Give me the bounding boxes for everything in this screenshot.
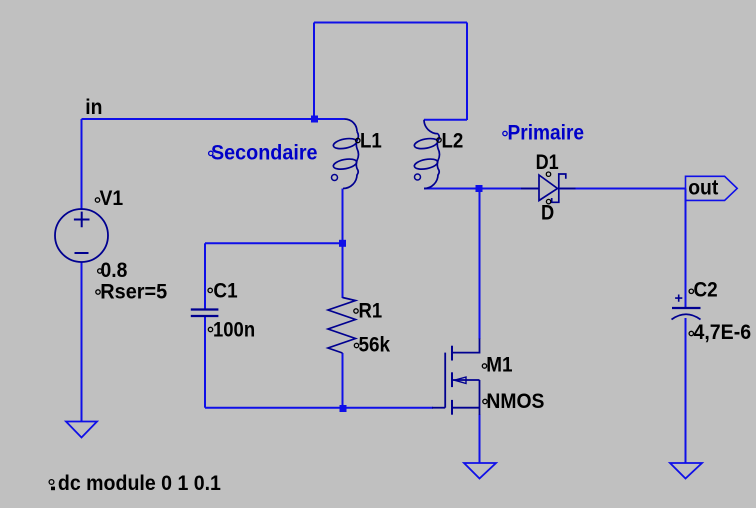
wire: V1 bottom to ground — [81, 262, 83, 422]
nmos M1 channel bottom segment — [451, 400, 453, 415]
inductor L2 rail bumps — [437, 134, 439, 175]
svg-text:C1: C1 — [213, 279, 237, 302]
svg-text:D1: D1 — [536, 151, 559, 175]
svg-text:C2: C2 — [694, 278, 718, 301]
anchor of 56k — [354, 343, 358, 347]
wire: C1 bottom vertical — [204, 317, 206, 408]
wire: L2 top horizontal — [424, 119, 467, 121]
nmos M1 source horizontal — [453, 407, 480, 409]
junction at bottom net / R1 — [340, 405, 347, 412]
junction at in/L1 top — [311, 116, 318, 123]
svg-text:D: D — [541, 201, 554, 225]
wire: R1 bottom lead — [342, 353, 344, 408]
wire: V1 top lead — [81, 119, 83, 210]
wire: C2 bottom to ground — [685, 318, 687, 463]
svg-text:56k: 56k — [359, 333, 391, 356]
diode D1 schottky cathode bar — [552, 174, 566, 202]
inductor L1 loop 2 — [333, 157, 358, 171]
nmos M1 arrow — [455, 377, 467, 384]
wire: C1 top vertical — [204, 243, 206, 309]
diode D1 cathode lead — [559, 188, 576, 190]
anchor of Secondaire — [209, 151, 213, 155]
anchor of R1 — [354, 309, 358, 313]
wire: top rectangle left vertical — [313, 23, 315, 120]
svg-text:NMOS: NMOS — [486, 389, 544, 413]
svg-text:0.8: 0.8 — [101, 258, 128, 282]
inductor L1 phase dot — [332, 175, 338, 181]
wire: node in horizontal — [82, 118, 345, 120]
wire: out flag down to C2 — [685, 189, 687, 309]
inductor L2 lead-in arc — [424, 120, 438, 134]
wire: L1 bottom vertical to R1 — [342, 189, 344, 299]
anchor of L1 — [356, 138, 360, 142]
anchor of directive — [49, 480, 54, 485]
nmos M1 right rail — [479, 380, 481, 415]
anchor of M1 — [482, 364, 486, 368]
ground of C2 — [670, 463, 702, 479]
inductor L1 lead-out arc — [343, 175, 357, 189]
svg-text:V1: V1 — [100, 186, 124, 210]
nmos M1 gate bar — [444, 353, 446, 408]
nmos M1 gate lead — [432, 407, 445, 409]
svg-text:out: out — [688, 176, 718, 200]
capacitor C2 curved bottom plate — [672, 314, 701, 319]
anchor of 100n — [208, 327, 212, 331]
wire: M1 drain vertical — [479, 189, 481, 340]
svg-text:L2: L2 — [442, 129, 464, 152]
svg-text:100n: 100n — [213, 318, 255, 342]
capacitor C2 plus polarity mark — [675, 295, 682, 302]
V1 minus sign — [75, 252, 89, 254]
nmos M1 bulk horizontal — [453, 379, 480, 381]
V1 plus sign — [74, 212, 90, 228]
nmos M1 channel top segment — [451, 346, 453, 361]
out net flag — [686, 176, 738, 200]
resistor R1 zigzag — [328, 298, 356, 354]
voltage source V1 circle — [55, 209, 108, 262]
diode D1 anode lead — [521, 188, 539, 190]
anchor of V1 — [95, 198, 99, 202]
anchor of C1 — [208, 288, 212, 292]
capacitor C1 bottom plate — [191, 315, 219, 317]
junction at L2/drain/diode node — [476, 185, 483, 192]
svg-text:M1: M1 — [486, 353, 512, 376]
inductor L1 rail bumps — [356, 132, 358, 176]
anchor of 4,7E-6 — [689, 331, 693, 335]
anchor below D1 — [546, 172, 550, 176]
directive leading period — [51, 487, 55, 491]
capacitor C2 top plate — [672, 307, 701, 309]
ground of M1 source — [464, 463, 496, 479]
inductor L2 loop 1 — [414, 137, 439, 151]
anchor of Rser=5 — [96, 290, 100, 294]
svg-text:Primaire: Primaire — [508, 122, 585, 145]
svg-text:4,7E-6: 4,7E-6 — [694, 320, 752, 344]
diode D1 triangle — [539, 175, 558, 201]
wire: L2 bottom to diode net — [424, 188, 538, 190]
wire: diode cathode to out flag — [560, 188, 686, 190]
svg-text:Rser=5: Rser=5 — [100, 280, 167, 304]
anchor of C2 — [689, 289, 693, 293]
anchor above D — [546, 199, 550, 203]
svg-text:Secondaire: Secondaire — [211, 141, 318, 165]
wire: top rectangle horizontal — [314, 22, 467, 24]
junction at C1/L1/R1 node — [339, 240, 346, 247]
ground of V1 — [66, 422, 97, 438]
wire: bottom net horizontal to gate — [205, 407, 433, 409]
anchor of L2 — [437, 138, 441, 142]
wire: M1 source to ground — [479, 415, 481, 463]
inductor L2 loop 2 — [414, 157, 439, 171]
capacitor C1 top plate — [191, 308, 219, 310]
svg-text:R1: R1 — [359, 299, 383, 323]
wire: top rectangle right vertical — [466, 23, 468, 121]
anchor of NMOS — [483, 399, 487, 403]
nmos M1 drain lead — [453, 339, 480, 353]
wire: C1 top horizontal net — [205, 242, 343, 244]
anchor of Primaire — [503, 131, 507, 135]
svg-text:in: in — [85, 95, 102, 119]
inductor L2 phase dot — [415, 174, 421, 180]
inductor L2 lead-out arc — [424, 175, 438, 189]
nmos M1 channel middle segment — [451, 372, 453, 387]
svg-text:dc module 0 1 0.1: dc module 0 1 0.1 — [58, 471, 221, 495]
anchor of 0.8 — [98, 269, 102, 273]
inductor L1 lead-in arc — [345, 119, 358, 132]
inductor L1 loop 1 — [333, 137, 358, 151]
svg-text:L1: L1 — [360, 129, 382, 152]
